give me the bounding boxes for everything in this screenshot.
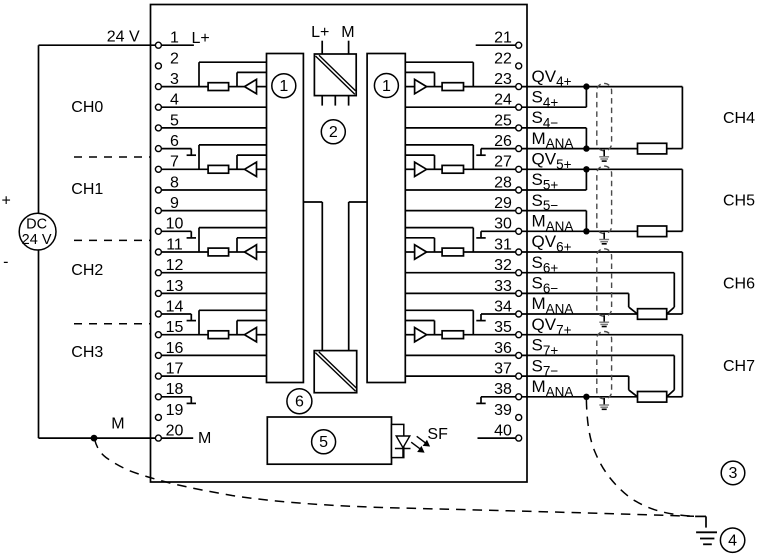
LED holder — [392, 424, 404, 457]
svg-text:16: 16 — [166, 340, 184, 357]
svg-text:CH4: CH4 — [723, 110, 755, 127]
svg-text:12: 12 — [166, 257, 184, 274]
svg-text:31: 31 — [494, 236, 512, 253]
svg-text:28: 28 — [494, 174, 512, 191]
terminal pin 18 — [155, 381, 183, 400]
circled 3 (note) — [721, 461, 745, 485]
bus bar U1 (left DAC block) — [267, 54, 304, 383]
svg-text:CH7: CH7 — [723, 358, 755, 375]
svg-text:2: 2 — [170, 50, 179, 67]
label MANA — [532, 129, 574, 151]
wire terminal 28 to bus bar — [405, 189, 515, 191]
contact symbol terminal 26 — [476, 149, 515, 156]
terminal pin 10 — [155, 216, 183, 235]
wire/feedback lines channel CH7 output stage — [405, 310, 473, 334]
wire terminal 8 to bus bar — [161, 189, 266, 191]
junction MANA CH4 — [583, 145, 589, 151]
svg-text:5: 5 — [170, 112, 179, 129]
wire terminal 13 to bus bar — [161, 292, 266, 294]
wire QV7+ (terminal 35) — [522, 334, 683, 336]
wire load to QV loop CH7 — [667, 335, 683, 397]
svg-text:36: 36 — [494, 340, 512, 357]
resistor R3 (CH3 output) — [208, 331, 229, 339]
wire/feedback lines channel CH6 output stage — [405, 228, 473, 252]
terminal pin 4 — [155, 92, 179, 111]
circled 1 (right) — [374, 74, 398, 98]
wire terminal 9 to bus bar — [161, 210, 266, 212]
label CH0 — [71, 99, 103, 116]
terminal pin 16 — [155, 340, 183, 359]
label S6+ — [532, 253, 559, 275]
svg-text:19: 19 — [166, 402, 184, 419]
label MANA — [532, 294, 574, 316]
amplifier A4 (CH4, points right) — [415, 79, 427, 93]
terminal pin 36 — [494, 340, 522, 359]
controller U5 box — [267, 417, 391, 464]
terminal pin 6 — [155, 133, 179, 152]
junction node M — [91, 435, 98, 442]
svg-text:-: - — [3, 254, 8, 271]
dashed channel boundary 2 — [74, 323, 151, 325]
terminal pin 37 — [494, 361, 522, 380]
svg-text:21: 21 — [494, 30, 512, 47]
junction QV5+/S5+ — [583, 166, 589, 172]
label S6- — [532, 274, 559, 296]
junction MANA CH5 — [583, 228, 589, 234]
terminal pin 11 — [155, 236, 183, 255]
amplifier A7 (CH7, points right) — [415, 328, 427, 342]
circled 5 (logic) — [312, 430, 336, 454]
label CH6 — [723, 275, 755, 292]
wire CH5 amplifier to terminal — [427, 168, 516, 170]
wire S7- (terminal 37) — [522, 376, 638, 397]
LED V1 (SF fault indicator) — [395, 436, 411, 458]
svg-text:1: 1 — [170, 30, 179, 47]
resistor R2 (CH2 output) — [208, 248, 229, 256]
wire M vertical from source to M rail — [38, 250, 40, 438]
svg-text:6: 6 — [170, 133, 179, 150]
dashed channel boundary 1 — [74, 239, 151, 241]
terminal pin 40 — [494, 423, 522, 442]
shield (dashed) around CH7 cable — [597, 332, 612, 399]
svg-text:DC: DC — [26, 217, 47, 233]
shield ground of CH7 — [599, 398, 609, 409]
label CH4 — [723, 110, 755, 127]
load resistor RL6 (CH6) — [638, 309, 667, 320]
terminal pin 13 — [155, 278, 183, 297]
shield ground of CH6 — [599, 315, 609, 326]
amplifier A2 (CH2, points left) — [245, 245, 257, 259]
terminal pin 12 — [155, 257, 183, 276]
terminal pin 9 — [155, 195, 179, 214]
svg-text:18: 18 — [166, 381, 184, 398]
load resistor RL4 (CH4) — [638, 143, 667, 154]
wire/feedback lines channel CH5 output stage — [405, 145, 473, 169]
load resistor RL7 (CH7) — [638, 392, 667, 403]
module outline (analog output module) — [151, 5, 528, 483]
svg-text:M: M — [341, 24, 354, 41]
svg-text:CH3: CH3 — [71, 344, 103, 361]
label S7+ — [532, 336, 559, 358]
ground terminal lead — [695, 516, 706, 527]
load resistor RL5 (CH5) — [638, 226, 667, 237]
contact symbol terminal 34 — [476, 314, 515, 321]
label M (power unit) — [341, 24, 354, 41]
wire terminal 32 to bus bar — [405, 272, 515, 274]
label S4- — [532, 108, 559, 130]
shield (dashed) around CH4 cable — [597, 83, 612, 150]
wire CH0 amplifier to bus bar — [229, 86, 267, 88]
wire MANA (terminal 30) — [522, 230, 638, 232]
resistor R7 (CH7 output) — [442, 331, 463, 339]
terminal pin 24 — [494, 92, 522, 111]
shield ground of CH5 — [599, 233, 609, 244]
svg-text:37: 37 — [494, 361, 512, 378]
wire terminal 33 to bus bar — [405, 292, 515, 294]
terminal pin 27 — [494, 154, 522, 173]
svg-text:CH2: CH2 — [71, 262, 103, 279]
contact symbol terminal 6 — [161, 149, 196, 156]
svg-text:24: 24 — [494, 92, 512, 109]
terminal pin 26 — [494, 133, 522, 152]
terminal pin 28 — [494, 174, 522, 193]
amplifier A0 (CH0, points left) — [245, 79, 257, 93]
terminal pin 22 — [494, 50, 522, 69]
svg-text:29: 29 — [494, 195, 512, 212]
wire terminal 4 to bus bar — [161, 106, 266, 108]
terminal pin 34 — [494, 298, 522, 317]
label QV5+ — [532, 150, 572, 172]
label CH1 — [71, 181, 103, 198]
wire S4+ (terminal 24) — [522, 87, 587, 108]
svg-text:24 V: 24 V — [107, 29, 140, 46]
wire CH1 amplifier to bus bar — [229, 168, 267, 170]
svg-text:CH1: CH1 — [71, 181, 103, 198]
terminal pin 17 — [155, 361, 183, 380]
terminal pin 3 — [155, 71, 179, 90]
terminal pin 38 — [494, 381, 522, 400]
svg-text:CH6: CH6 — [723, 275, 755, 292]
contact symbol terminal 18 — [161, 397, 196, 404]
terminal pin 33 — [494, 278, 522, 297]
svg-text:1: 1 — [279, 78, 288, 95]
terminal pin 25 — [494, 112, 522, 131]
terminal pin 21 — [494, 30, 522, 49]
dashed equipotential line from M — [95, 439, 695, 516]
svg-text:33: 33 — [494, 278, 512, 295]
label M (terminal 20) — [198, 430, 211, 447]
junction QV4+/S4+ — [583, 83, 589, 89]
resistor R4 (CH4 output) — [442, 83, 463, 91]
wire/feedback lines channel CH2 output stage — [161, 228, 266, 252]
junction MANA CH7 (shield bond) — [583, 394, 589, 400]
label MANA — [532, 377, 574, 399]
svg-text:7: 7 — [170, 154, 179, 171]
svg-text:M: M — [111, 416, 124, 433]
label S5+ — [532, 170, 559, 192]
terminal pin 8 — [155, 174, 179, 193]
terminal pin 2 — [155, 50, 179, 69]
power unit T1 (isolation, L+/M) — [314, 41, 356, 106]
wire/feedback lines channel CH1 output stage — [161, 145, 266, 169]
svg-text:34: 34 — [494, 298, 512, 315]
wire CH3 amplifier to bus bar — [229, 334, 267, 336]
svg-text:25: 25 — [494, 112, 512, 129]
amplifier A3 (CH3, points left) — [245, 328, 257, 342]
wire S6- (terminal 33) — [522, 293, 638, 314]
amplifier A6 (CH6, points right) — [415, 245, 427, 259]
bus bar U2 (right DAC block) — [367, 54, 405, 383]
svg-text:9: 9 — [170, 195, 179, 212]
wire/feedback lines channel CH3 output stage — [161, 310, 266, 334]
wire CH4 amplifier to terminal — [427, 86, 516, 88]
contact symbol terminal 38 — [476, 397, 515, 404]
label QV7+ — [532, 315, 572, 337]
wire load to QV loop CH5 — [667, 169, 683, 231]
backplane interface T2 (isolation) — [314, 351, 357, 393]
svg-text:22: 22 — [494, 50, 512, 67]
label + (supply positive) — [2, 193, 11, 210]
resistor R1 (CH1 output) — [208, 165, 229, 173]
resistor R5 (CH5 output) — [442, 165, 463, 173]
terminal pin 19 — [155, 402, 183, 421]
svg-text:35: 35 — [494, 319, 512, 336]
wire MANA (terminal 34) — [522, 313, 638, 315]
svg-text:32: 32 — [494, 257, 512, 274]
svg-text:13: 13 — [166, 278, 184, 295]
wire S7+ (terminal 36) — [522, 355, 675, 396]
label L+ (terminal 1) — [192, 30, 210, 47]
amplifier A1 (CH1, points left) — [245, 162, 257, 176]
terminal pin 14 — [155, 298, 183, 317]
wire bus neck — [303, 202, 367, 351]
label M (external) — [111, 416, 124, 433]
circled 2 (power supply) — [321, 120, 345, 144]
svg-text:2: 2 — [329, 124, 338, 141]
svg-text:4: 4 — [728, 533, 737, 550]
svg-text:4: 4 — [170, 92, 179, 109]
svg-text:L+: L+ — [311, 24, 329, 41]
wire terminal 1 L+ stub — [161, 44, 194, 46]
terminal pin 20 — [155, 423, 183, 442]
svg-text:5: 5 — [319, 434, 328, 451]
label CH5 — [723, 193, 755, 210]
svg-text:11: 11 — [166, 236, 183, 253]
wire/feedback lines channel CH0 output stage — [161, 62, 266, 86]
circled 1 (left) — [272, 74, 296, 98]
resistor R0 (CH0 output) — [208, 83, 229, 91]
wire load to QV loop CH4 — [667, 87, 683, 149]
label S5- — [532, 191, 559, 213]
svg-text:CH5: CH5 — [723, 193, 755, 210]
svg-text:38: 38 — [494, 381, 512, 398]
wire QV5+ (terminal 27) — [522, 168, 683, 170]
svg-text:6: 6 — [295, 394, 304, 411]
wire terminal 25 to bus bar — [405, 127, 515, 129]
contact symbol terminal 14 — [161, 314, 196, 321]
terminal pin 31 — [494, 236, 522, 255]
earth ground symbol — [696, 532, 717, 544]
wire/feedback lines channel CH4 output stage — [405, 62, 473, 86]
resistor R6 (CH6 output) — [442, 248, 463, 256]
label CH7 — [723, 358, 755, 375]
terminal pin 7 — [155, 154, 179, 173]
svg-text:M: M — [198, 430, 211, 447]
wire terminal 21 stub — [476, 44, 516, 46]
wire load to QV loop CH6 — [667, 252, 683, 314]
svg-text:30: 30 — [494, 216, 512, 233]
wire terminal 40 stub — [478, 437, 516, 439]
wire CH2 amplifier to bus bar — [229, 251, 267, 253]
LED arrows — [411, 436, 429, 452]
shield ground of CH4 — [599, 150, 609, 161]
svg-text:26: 26 — [494, 133, 512, 150]
wire S5- (terminal 29) — [522, 211, 587, 232]
wire QV4+ (terminal 23) — [522, 86, 683, 88]
label SF — [427, 426, 448, 443]
dashed shield line from CH7 MANA — [586, 400, 692, 516]
wire terminal 5 to bus bar — [161, 127, 266, 129]
wire M rail to terminal 20 — [39, 437, 156, 439]
wire MANA (terminal 38) — [522, 396, 638, 398]
label L+ (power unit) — [311, 24, 329, 41]
svg-text:39: 39 — [494, 402, 512, 419]
wire CH7 amplifier to terminal — [427, 334, 516, 336]
svg-text:L+: L+ — [192, 30, 210, 47]
wire S6+ (terminal 32) — [522, 273, 675, 314]
label CH2 — [71, 262, 103, 279]
svg-text:15: 15 — [166, 319, 184, 336]
contact symbol terminal 10 — [161, 231, 196, 238]
circled 4 (ground note) — [720, 528, 744, 552]
wire CH6 amplifier to terminal — [427, 251, 516, 253]
svg-text:3: 3 — [729, 465, 738, 482]
terminal pin 1 — [155, 30, 179, 49]
label 24 V — [107, 29, 140, 46]
wire terminal 16 to bus bar — [161, 354, 266, 356]
svg-text:17: 17 — [166, 361, 184, 378]
wire terminal 37 to bus bar — [405, 375, 515, 377]
label QV4+ — [532, 67, 572, 89]
circled 6 (backplane bus interface) — [287, 389, 312, 414]
terminal pin 35 — [494, 319, 522, 338]
svg-text:27: 27 — [494, 154, 512, 171]
svg-text:40: 40 — [494, 423, 512, 440]
wire terminal 24 to bus bar — [405, 106, 515, 108]
svg-text:20: 20 — [166, 423, 184, 440]
terminal pin 39 — [494, 402, 522, 421]
dashed channel boundary 0 — [74, 156, 151, 158]
terminal pin 30 — [494, 216, 522, 235]
contact symbol terminal 30 — [476, 231, 515, 238]
shield (dashed) around CH5 cable — [597, 166, 612, 233]
source G1 DC 24 V circle — [19, 213, 56, 250]
wire QV6+ (terminal 31) — [522, 251, 683, 253]
label S7- — [532, 356, 559, 378]
svg-text:+: + — [2, 193, 11, 210]
terminal pin 15 — [155, 319, 183, 338]
terminal pin 29 — [494, 195, 522, 214]
wire 24V feed from supply to terminal 1 — [39, 44, 156, 46]
shield (dashed) around CH6 cable — [597, 249, 612, 316]
wire L+ vertical from 24V source — [38, 45, 40, 213]
svg-text:24 V: 24 V — [22, 232, 52, 248]
wire MANA (terminal 26) — [522, 148, 638, 150]
wire terminal 29 to bus bar — [405, 210, 515, 212]
svg-text:14: 14 — [166, 298, 184, 315]
wire terminal 12 to bus bar — [161, 272, 266, 274]
wire S4- (terminal 25) — [522, 128, 587, 149]
svg-text:1: 1 — [382, 78, 391, 95]
label QV6+ — [532, 232, 572, 254]
wire terminal 17 to bus bar — [161, 375, 266, 377]
svg-text:10: 10 — [166, 216, 184, 233]
terminal pin 23 — [494, 71, 522, 90]
wire terminal 20 M stub — [161, 437, 193, 439]
label CH3 — [71, 344, 103, 361]
wire terminal 36 to bus bar — [405, 354, 515, 356]
terminal pin 32 — [494, 257, 522, 276]
svg-text:CH0: CH0 — [71, 99, 103, 116]
label MANA — [532, 212, 574, 234]
svg-text:23: 23 — [494, 71, 512, 88]
terminal pin 5 — [155, 112, 179, 131]
label - (supply negative) — [3, 254, 8, 271]
svg-text:8: 8 — [170, 174, 179, 191]
svg-text:SF: SF — [427, 426, 448, 443]
wire S5+ (terminal 28) — [522, 169, 587, 190]
amplifier A5 (CH5, points right) — [415, 162, 427, 176]
label S4+ — [532, 87, 559, 109]
svg-text:3: 3 — [170, 71, 179, 88]
